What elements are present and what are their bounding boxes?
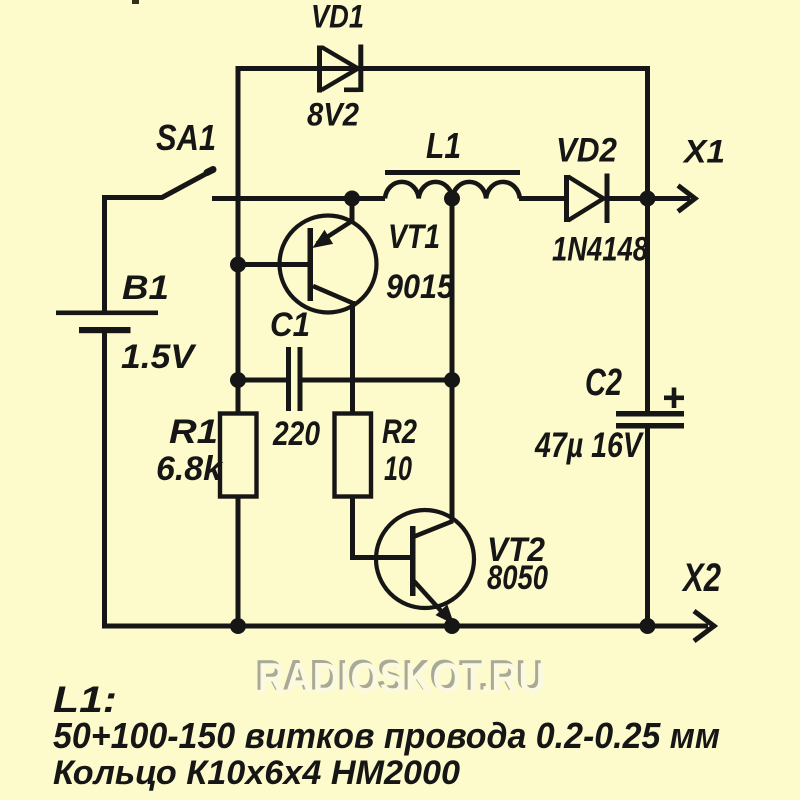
- wire: VT1 collector vertical down to R2: [350, 301, 355, 414]
- wire: top rail from left vertical to right vertical: [236, 66, 651, 71]
- svg-text:10: 10: [384, 450, 412, 488]
- svg-text:R2: R2: [382, 413, 417, 451]
- wire: X1 output stub: [650, 196, 690, 201]
- wire: bottom rail: [102, 624, 650, 629]
- node: tap / VT2 collector: [444, 372, 460, 388]
- node: X1 / right rail: [640, 191, 656, 207]
- node: VT1 emitter / top rail: [344, 191, 360, 207]
- wire: left vertical bus x=238 (VD1 anode down through SA1 node, VT1 base node, C1/R1 node): [236, 66, 241, 414]
- transistor VT1: [280, 216, 377, 313]
- svg-text:R1: R1: [169, 413, 218, 451]
- svg-text:Кольцо К10х6х4 НМ2000: Кольцо К10х6х4 НМ2000: [53, 754, 460, 792]
- node: VT1 base: [230, 257, 246, 273]
- wire: switch right contact to L1 left end: [212, 196, 385, 201]
- wire: battery to switch SA1 left contact: [102, 195, 161, 200]
- svg-text:L1:: L1:: [53, 679, 117, 720]
- svg-text:8V2: 8V2: [307, 97, 359, 133]
- wire: C1 right wire to tap node: [302, 378, 452, 383]
- wire: R1 bottom lead to ground rail: [236, 497, 241, 627]
- connector X2 arrow: [694, 611, 714, 641]
- capacitor C1: [286, 347, 303, 411]
- wire: VT1 base wire: [238, 262, 309, 267]
- wire: VD2 cathode to X1 node: [608, 196, 650, 201]
- svg-text:6.8k: 6.8k: [156, 450, 224, 488]
- resistor R2: [335, 414, 372, 497]
- node: X2 / right rail bottom: [640, 618, 656, 634]
- svg-text:8050: 8050: [487, 559, 548, 597]
- wire: L1 tap / VT2 collector vertical: [450, 199, 455, 522]
- svg-text:VD1: VD1: [311, 0, 364, 35]
- wire: VT1 emitter vertical to top rail node: [350, 199, 355, 223]
- svg-text:SA1: SA1: [156, 117, 216, 158]
- watermark RADIOSKOT.RU (embossed): [255, 652, 546, 703]
- wire: VT2 base wire: [350, 555, 411, 560]
- wire: X2 output stub: [650, 624, 708, 629]
- junction node dots: [230, 191, 656, 635]
- svg-text:C2: C2: [585, 362, 622, 404]
- battery B1: [56, 311, 158, 334]
- svg-text:47µ 16V: 47µ 16V: [534, 426, 644, 465]
- wire: battery top lead: [102, 195, 107, 311]
- wire: C1 left wire: [238, 378, 287, 383]
- svg-text:C1: C1: [270, 306, 310, 344]
- zener diode VD1: [317, 45, 363, 93]
- connector X1 arrow: [678, 186, 695, 212]
- svg-text:X2: X2: [681, 556, 721, 600]
- svg-text:L1: L1: [426, 125, 461, 166]
- diode VD2: [564, 174, 610, 224]
- svg-text:B1: B1: [122, 269, 169, 307]
- switch SA1 lever: [162, 170, 213, 198]
- wire: right vertical from top rail to C2 top plate: [645, 66, 650, 411]
- svg-text:VT1: VT1: [388, 218, 440, 256]
- svg-text:1N4148: 1N4148: [552, 231, 648, 269]
- node: VT2 emitter / ground rail: [444, 618, 460, 634]
- node: C1 left / R1 top: [230, 372, 246, 388]
- node: R1 bottom / ground rail: [230, 618, 246, 634]
- resistor R1: [220, 414, 257, 497]
- svg-text:1.5V: 1.5V: [121, 338, 197, 376]
- inductor L1: [385, 173, 520, 199]
- svg-text:220: 220: [272, 415, 320, 453]
- wire: battery negative lead down: [102, 333, 107, 629]
- svg-text:RADIOSKOT.RU: RADIOSKOT.RU: [258, 655, 546, 703]
- svg-text:9015: 9015: [386, 268, 455, 306]
- wire: R2 bottom lead: [350, 497, 355, 558]
- stray mark top edge: [132, 0, 139, 4]
- node: L1 tap: [444, 191, 460, 207]
- capacitor C2 (electrolytic): [616, 388, 684, 429]
- transistor VT2: [376, 510, 474, 623]
- svg-text:VD2: VD2: [556, 132, 617, 170]
- svg-text:50+100-150 витков провода 0.2-: 50+100-150 витков провода 0.2-0.25 мм: [53, 715, 720, 756]
- svg-text:X1: X1: [682, 134, 725, 170]
- wire: L1 right end to VD2 anode: [519, 196, 565, 201]
- wire: right vertical from C2 bottom plate to bottom rail: [645, 429, 650, 627]
